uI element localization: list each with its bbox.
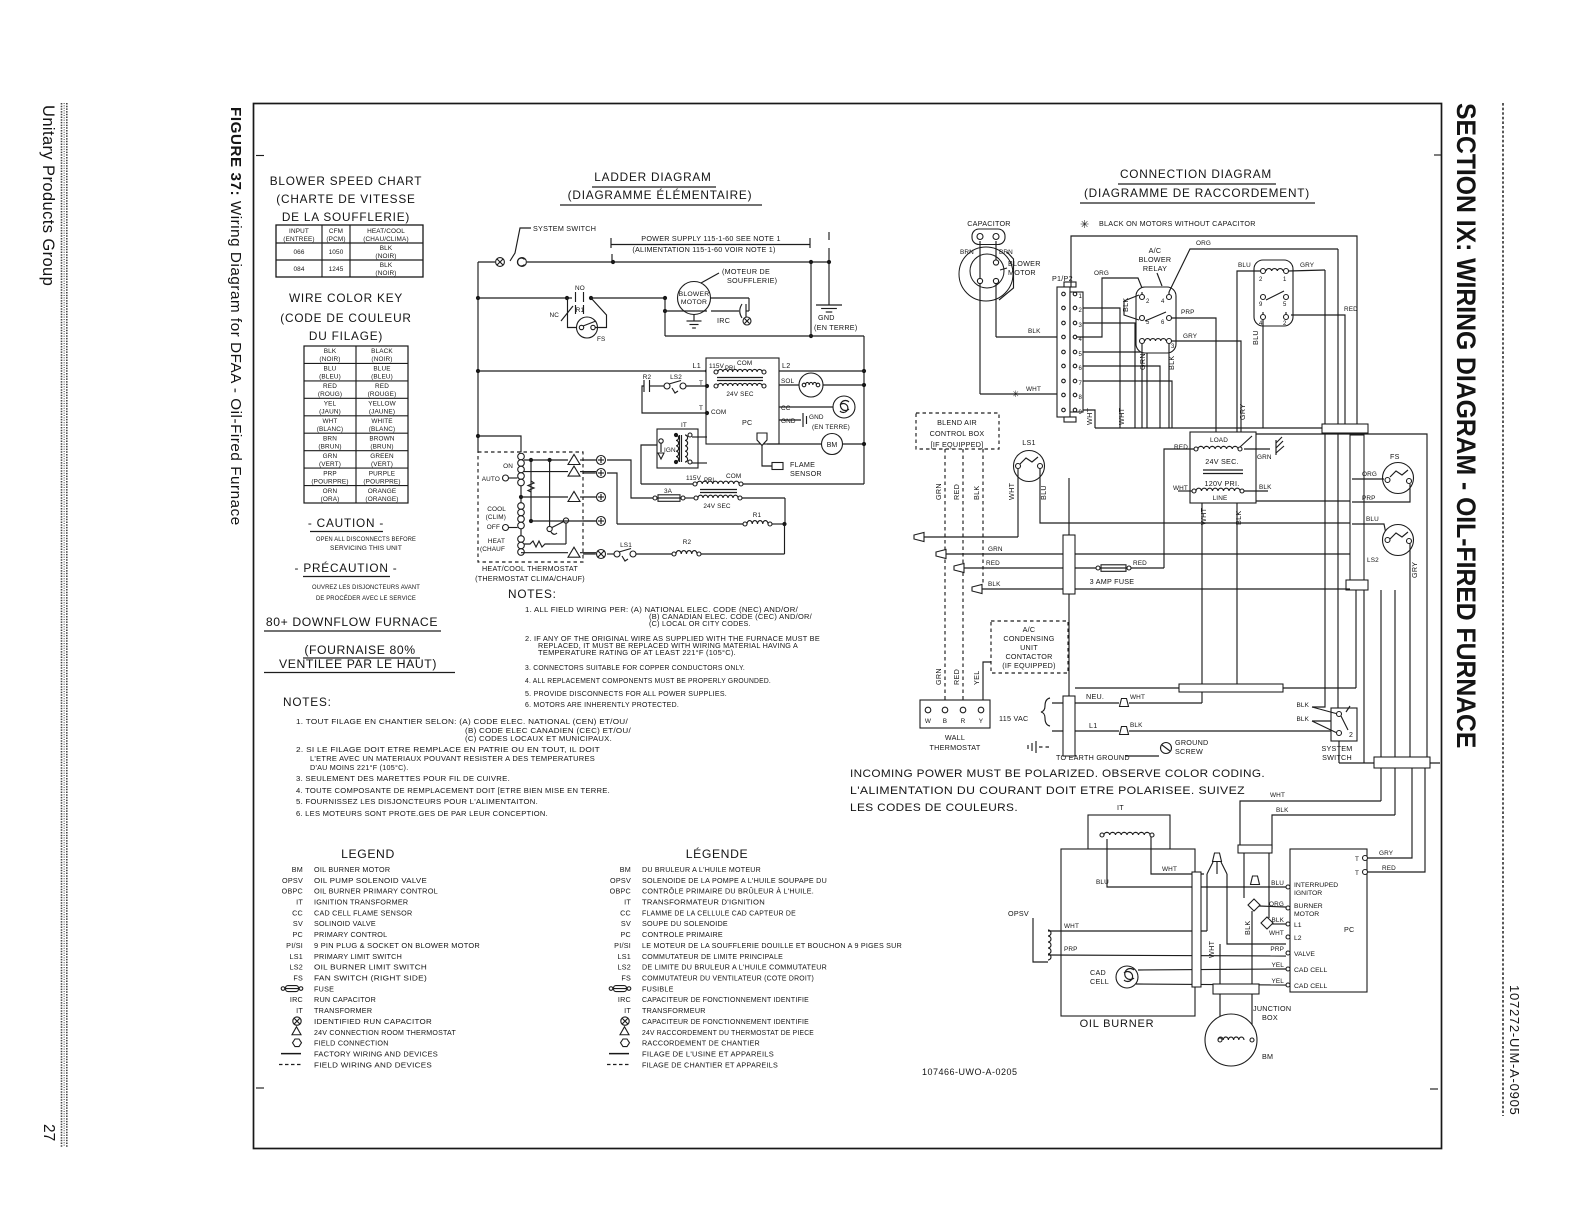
legend symbol fuse [281,987,285,991]
svg-text:FS: FS [597,336,605,343]
svg-text:CAD CELL FLAME SENSOR: CAD CELL FLAME SENSOR [314,908,412,917]
svg-text:CC: CC [620,908,631,917]
svg-text:PRP: PRP [1181,309,1195,316]
svg-text:CC: CC [781,405,791,412]
blower motor (connection) [959,241,1041,301]
capacitor [960,219,1013,256]
WHT/BLK feeds [1240,792,1395,849]
svg-text:120V PRI.: 120V PRI. [1204,479,1239,488]
svg-text:IT: IT [296,1006,303,1015]
svg-text:BLU: BLU [1039,485,1048,500]
svg-text:RED: RED [375,383,389,390]
blower motor (ladder) [663,267,777,336]
svg-text:IRC: IRC [618,995,631,1004]
svg-text:BOX: BOX [1262,1013,1278,1022]
svg-text:OIL BURNER LIMIT SWITCH: OIL BURNER LIMIT SWITCH [314,963,427,972]
svg-text:(NOIR): (NOIR) [371,356,392,363]
doc number [922,1067,1018,1077]
solenoid SOL [779,373,866,397]
svg-text:WHT: WHT [1117,407,1126,425]
svg-text:3 AMP FUSE: 3 AMP FUSE [1090,577,1135,586]
svg-text:GND: GND [818,313,835,322]
svg-text:BLUE: BLUE [373,366,390,373]
svg-text:POWER SUPPLY 115-1-60 SEE NOTE: POWER SUPPLY 115-1-60 SEE NOTE 1 [641,234,780,243]
vertical header Unitary Products Group [39,105,57,286]
incoming power note [850,768,1265,814]
svg-text:CAPACITEUR DE FONCTIONNEMENT I: CAPACITEUR DE FONCTIONNEMENT IDENTIFIE [642,1017,809,1026]
svg-text:(VERT): (VERT) [319,461,341,468]
svg-text:OPEN ALL DISCONNECTS BEFORE: OPEN ALL DISCONNECTS BEFORE [316,536,416,543]
wire color key table [304,346,408,503]
svg-text:(CHARTE DE VITESSE: (CHARTE DE VITESSE [276,192,415,206]
svg-text:SOUPE DU SOLENOIDE: SOUPE DU SOLENOIDE [642,919,728,928]
svg-text:INPUT: INPUT [289,228,309,235]
svg-text:BLK: BLK [1130,722,1143,729]
svg-text:084: 084 [293,266,304,273]
svg-text:L2: L2 [782,361,791,370]
resistor R1 (lower) [607,473,787,554]
svg-text:GRN: GRN [934,483,943,500]
svg-text:ORN: ORN [323,488,338,495]
svg-text:BLU: BLU [1096,879,1109,886]
svg-text:✳: ✳ [1080,219,1089,231]
svg-text:CAD CELL: CAD CELL [1294,967,1327,974]
svg-text:GRN: GRN [988,546,1003,553]
svg-text:COMMUTATEUR DU VENTILATEUR (CO: COMMUTATEUR DU VENTILATEUR (COTE DROIT) [642,974,814,983]
svg-text:R: R [961,718,966,725]
svg-text:(IF EQUIPPED): (IF EQUIPPED) [1002,661,1056,670]
svg-text:- CAUTION -: - CAUTION - [308,516,384,530]
svg-text:WHT: WHT [1269,930,1284,937]
ground GND terminal [779,413,850,431]
svg-text:(BLANC): (BLANC) [369,426,396,433]
svg-text:BLK: BLK [988,581,1001,588]
svg-text:GRY: GRY [1300,262,1315,269]
svg-text:BLOWER: BLOWER [1008,259,1041,268]
right dashed rule [1502,103,1504,1116]
svg-text:FILAGE DE CHANTIER ET APPAREIL: FILAGE DE CHANTIER ET APPAREILS [642,1060,778,1069]
svg-text:(ROUG): (ROUG) [318,391,342,398]
wires P1 right pins down [1083,308,1172,428]
svg-text:COM: COM [726,473,741,480]
svg-text:HEAT/COOL: HEAT/COOL [367,228,405,235]
system switch SW [496,224,597,266]
relay contact NO / R1 [478,285,665,314]
legend symbol identified run capacitor [293,1017,301,1025]
ignition transformer IT [641,422,707,484]
svg-text:LES CODES DE COULEURS.: LES CODES DE COULEURS. [850,802,1018,814]
svg-text:RED: RED [952,669,961,685]
run capacitor IRC [746,310,749,312]
svg-text:FS: FS [1390,452,1400,461]
blend air wires [934,449,983,706]
svg-text:IRC: IRC [290,995,303,1004]
svg-text:ORG: ORG [1196,240,1211,247]
svg-text:✳: ✳ [1012,389,1020,399]
svg-text:GRY: GRY [1379,850,1394,857]
svg-text:OPSV: OPSV [282,876,303,885]
legend symbol field connection [293,1039,302,1047]
svg-text:(BLANC): (BLANC) [317,426,344,433]
wire: left rail [476,262,480,452]
downflow furnace heading [264,615,455,673]
svg-text:TRANSFORMATEUR D'IGNITION: TRANSFORMATEUR D'IGNITION [642,898,765,907]
legend symbol fr 15 [620,1027,629,1035]
wire ORG P1 pin1 to FS [1077,270,1142,337]
svg-text:W: W [925,718,932,725]
svg-text:LOAD: LOAD [1210,437,1228,444]
wire bus top y253 [1071,236,1357,424]
svg-text:CAPACITOR: CAPACITOR [967,219,1011,228]
svg-text:RACCORDEMENT DE CHANTIER: RACCORDEMENT DE CHANTIER [642,1039,760,1048]
connector P1/P2 [1052,274,1083,422]
svg-text:DE LA SOUFFLERIE): DE LA SOUFFLERIE) [282,210,410,224]
svg-text:L1: L1 [693,361,702,370]
svg-text:OUVREZ LES DISJONCTEURS AVANT: OUVREZ LES DISJONCTEURS AVANT [312,584,420,591]
svg-text:FIELD WIRING AND DEVICES: FIELD WIRING AND DEVICES [314,1060,432,1069]
svg-text:CELL: CELL [1090,977,1109,986]
bottom right conduit [1339,757,1440,768]
svg-text:(NOIR): (NOIR) [375,270,396,277]
wire WHT motor to P1 pin8 [980,284,1060,400]
wall thermostat [920,700,990,752]
svg-text:BLK: BLK [1028,328,1041,335]
fan switch FS (connection) [1352,452,1414,502]
svg-text:PRP: PRP [1064,946,1078,953]
legend symbol factory wiring and devices [281,1053,301,1055]
svg-text:HEAT/COOL THERMOSTAT: HEAT/COOL THERMOSTAT [482,564,578,573]
svg-text:RED: RED [1382,865,1396,872]
svg-text:WHT: WHT [1270,792,1285,799]
svg-text:LS1: LS1 [620,542,632,549]
svg-text:BURNER: BURNER [1294,903,1323,910]
svg-text:BM: BM [1262,1052,1273,1061]
legend (english) [341,847,395,861]
svg-text:OIL PUMP SOLENOID VALVE: OIL PUMP SOLENOID VALVE [314,876,427,885]
svg-text:BM: BM [292,865,303,874]
svg-text:GRN: GRN [934,668,943,685]
svg-text:BRN: BRN [323,435,337,442]
svg-text:IT: IT [624,1006,631,1015]
svg-text:LS2: LS2 [670,374,682,381]
svg-text:HEAT: HEAT [488,538,505,545]
T terminals GRY/RED [1355,768,1425,877]
svg-text:PC: PC [742,418,753,427]
svg-text:IGNITION TRANSFORMER: IGNITION TRANSFORMER [314,898,408,907]
svg-text:(CLIM): (CLIM) [486,514,506,521]
flame sensor connector (pentagon) [757,433,822,478]
svg-text:(CHAU/CLIMA): (CHAU/CLIMA) [363,236,408,243]
svg-text:VENTILEE PAR LE HAUT): VENTILEE PAR LE HAUT) [279,657,437,671]
limit switch LS1 and resistor R2 (lower rung) [607,539,785,561]
svg-text:24V SEC: 24V SEC [726,391,754,398]
svg-text:80+ DOWNFLOW FURNACE: 80+ DOWNFLOW FURNACE [266,615,438,629]
legend symbol fr 11 [609,987,613,991]
svg-text:GRN: GRN [1138,353,1147,370]
rotated wht labels [1085,407,1126,425]
svg-text:JUNCTION: JUNCTION [1253,1004,1291,1013]
svg-text:TEMPERATURE RATING OF AT LEAST: TEMPERATURE RATING OF AT LEAST 221°F (10… [538,648,736,657]
svg-text:(VERT): (VERT) [371,461,393,468]
svg-text:IT: IT [296,898,303,907]
svg-text:BLK: BLK [1276,807,1289,814]
limit switch LS1 (connection) [1007,438,1350,537]
svg-text:Unitary Products Group: Unitary Products Group [39,105,57,286]
svg-text:2: 2 [1349,732,1353,739]
svg-text:BLK: BLK [972,486,981,501]
notes (french) [283,695,631,818]
svg-text:LS1: LS1 [289,952,303,961]
svg-text:FIELD CONNECTION: FIELD CONNECTION [314,1039,389,1048]
svg-text:MOTOR: MOTOR [681,299,707,306]
thermostat terminal circles [583,456,606,465]
relay wires [1124,240,1350,501]
svg-text:NO: NO [575,285,585,292]
svg-text:ORG: ORG [1362,471,1377,478]
svg-text:BLOWER SPEED CHART: BLOWER SPEED CHART [270,174,423,188]
svg-text:RELAY: RELAY [1143,264,1167,273]
svg-text:BM: BM [827,442,838,449]
svg-text:BLK: BLK [380,262,393,269]
svg-text:BLK: BLK [1167,356,1176,371]
svg-text:LE MOTEUR DE LA SOUFFLERIE DOU: LE MOTEUR DE LA SOUFFLERIE DOUILLE ET BO… [642,941,902,950]
svg-text:(BRUN): (BRUN) [318,443,341,450]
svg-text:COM: COM [737,360,752,367]
svg-text:OIL BURNER PRIMARY CONTROL: OIL BURNER PRIMARY CONTROL [314,887,438,896]
svg-text:T: T [1355,870,1359,877]
relay contact NC [549,298,578,328]
svg-text:5. PROVIDE DISCONNECTS FOR ALL: 5. PROVIDE DISCONNECTS FOR ALL POWER SUP… [525,689,727,698]
svg-text:BLU: BLU [1251,330,1260,345]
svg-text:SOUFFLERIE): SOUFFLERIE) [727,276,777,285]
svg-text:IGNITOR: IGNITOR [1294,890,1322,897]
svg-text:(MOTEUR DE: (MOTEUR DE [722,267,770,276]
svg-text:CFM: CFM [329,228,343,235]
svg-text:UNIT: UNIT [1020,643,1038,652]
svg-text:CONTROL BOX: CONTROL BOX [930,429,985,438]
svg-text:BLK: BLK [1296,702,1309,709]
wire BLK motor to P1 pin4 [996,284,1060,338]
oil pump solenoid valve OPSV [1008,909,1286,962]
svg-text:GRY: GRY [1238,404,1247,420]
vertical caption FIGURE 37 [227,107,244,526]
svg-text:1245: 1245 [329,266,344,273]
svg-text:L1: L1 [1294,922,1302,929]
svg-text:OIL BURNER: OIL BURNER [1080,1018,1155,1030]
svg-text:115V: 115V [709,363,725,370]
svg-text:ON: ON [503,463,513,470]
svg-text:FS: FS [621,974,631,983]
svg-text:WHT: WHT [1064,923,1079,930]
svg-text:IGN: IGN [664,447,676,454]
power supply note bracket [611,234,810,262]
svg-text:(CODE DE COULEUR: (CODE DE COULEUR [280,311,411,325]
wire: top rung [478,260,829,264]
svg-text:GRN: GRN [1257,454,1272,461]
svg-text:RUN CAPACITOR: RUN CAPACITOR [314,995,376,1004]
svg-text:107466-UWO-A-0205: 107466-UWO-A-0205 [922,1067,1018,1077]
svg-text:COM: COM [711,409,726,416]
svg-text:2. SI LE FILAGE DOIT ETRE REMP: 2. SI LE FILAGE DOIT ETRE REMPLACE EN PA… [296,745,600,754]
svg-text:SERVICING THIS UNIT: SERVICING THIS UNIT [330,545,402,552]
svg-text:WALL: WALL [945,733,965,742]
svg-text:9 PIN PLUG & SOCKET ON BLOWER: 9 PIN PLUG & SOCKET ON BLOWER MOTOR [314,941,480,950]
svg-text:3A: 3A [664,488,673,495]
svg-text:R1: R1 [753,512,762,519]
svg-text:(NOIR): (NOIR) [375,253,396,260]
svg-text:IDENTIFIED RUN CAPACITOR: IDENTIFIED RUN CAPACITOR [314,1017,432,1026]
svg-text:IT: IT [681,422,687,429]
svg-text:CC: CC [292,908,303,917]
conduit bar at 115vac [1063,696,1075,756]
svg-text:TRANSFORMEUR: TRANSFORMEUR [642,1006,706,1015]
legend symbol field wiring and devices [279,1064,301,1066]
svg-text:IRC: IRC [717,316,730,325]
svg-text:27: 27 [40,1124,57,1141]
svg-text:ORANGE: ORANGE [368,488,397,495]
svg-text:1050: 1050 [329,249,344,256]
burner conduit [1192,845,1272,987]
svg-text:24V SEC.: 24V SEC. [1205,457,1239,466]
svg-text:T: T [1355,856,1359,863]
svg-text:(ENTREE): (ENTREE) [283,236,314,243]
wire bus y688 [1075,684,1356,692]
svg-text:RED: RED [952,484,961,500]
svg-text:R1: R1 [576,307,585,314]
svg-text:A/C: A/C [1149,246,1162,255]
svg-text:SENSOR: SENSOR [790,469,822,478]
svg-text:DU BRULEUR A L'HUILE MOTEUR: DU BRULEUR A L'HUILE MOTEUR [642,865,761,874]
svg-text:ORG: ORG [1094,270,1109,277]
svg-text:CONTACTOR: CONTACTOR [1005,652,1052,661]
svg-text:FILAGE DE L'USINE ET APPAREILS: FILAGE DE L'USINE ET APPAREILS [642,1050,774,1059]
wire bus y434 [1237,434,1427,757]
svg-text:24V RACCORDEMENT DU THERMOSTAT: 24V RACCORDEMENT DU THERMOSTAT DE PIECE [642,1028,814,1037]
svg-text:(BLEU): (BLEU) [319,374,341,381]
limit switch LS2 (connection) [1352,516,1419,757]
wire: L2 drop [809,262,813,338]
ground GND (EN TERRE) ladder [814,232,858,332]
svg-text:WHITE: WHITE [371,418,392,425]
svg-text:(CHAUF: (CHAUF [480,546,505,553]
svg-text:PI/SI: PI/SI [614,941,631,950]
system switch (connection) [1296,702,1357,763]
svg-text:NOTES:: NOTES: [508,587,557,601]
svg-text:RED: RED [1344,306,1358,313]
svg-text:L1: L1 [1089,721,1098,730]
svg-text:OFF: OFF [487,524,500,531]
svg-text:WHT: WHT [1199,507,1208,525]
page number 27 [40,1124,57,1141]
svg-text:NEU.: NEU. [1086,692,1104,701]
conduit bar right [1322,424,1368,590]
transformer 24V (connection) [1164,432,1284,703]
svg-text:WHT: WHT [322,418,337,425]
svg-text:TRANSFORMER: TRANSFORMER [314,1006,372,1015]
svg-text:WHT: WHT [1026,386,1041,393]
drawing frame [254,104,1442,1149]
svg-text:LINE: LINE [1213,495,1228,502]
svg-text:GND: GND [781,418,796,425]
legend symbol fr 14 [621,1017,629,1025]
svg-text:GREEN: GREEN [370,453,394,460]
svg-text:DU FILAGE): DU FILAGE) [309,329,383,343]
svg-text:WHT: WHT [1085,407,1094,425]
note: black on motors [1080,219,1256,231]
blower speed chart heading [270,174,423,224]
svg-text:BLK: BLK [380,245,393,252]
svg-text:AUTO: AUTO [482,476,500,483]
svg-text:PI/SI: PI/SI [286,941,303,950]
svg-text:066: 066 [293,249,304,256]
svg-text:BROWN: BROWN [369,435,394,442]
wire: motor return to right rail [665,336,866,484]
svg-text:PRP: PRP [1362,495,1376,502]
legend symbol 24v connection room thermostat [292,1027,301,1035]
svg-text:BLK: BLK [1296,716,1309,723]
svg-text:GRN: GRN [323,453,338,460]
svg-text:(NOIR): (NOIR) [319,356,340,363]
svg-text:24V SEC: 24V SEC [703,503,731,510]
svg-text:GROUND: GROUND [1175,738,1208,747]
svg-text:L'ETRE AVEC UN MATERIAUX POUVA: L'ETRE AVEC UN MATERIAUX POUVANT RESISTE… [310,754,595,763]
svg-text:(ALIMENTATION 115-1-60 VOIR NO: (ALIMENTATION 115-1-60 VOIR NOTE 1) [632,245,775,254]
svg-text:RED: RED [1174,444,1188,451]
ignition transformer IT (connection) [1088,803,1170,849]
svg-text:107272-UIM-A-0905: 107272-UIM-A-0905 [1507,985,1522,1116]
ladder diagram title [560,170,762,205]
svg-text:CONNECTION DIAGRAM: CONNECTION DIAGRAM [1120,167,1272,181]
A/C condensing unit contactor [983,621,1068,706]
svg-text:BLU: BLU [1366,516,1379,523]
svg-text:1. TOUT FILAGE EN CHANTIER SEL: 1. TOUT FILAGE EN CHANTIER SELON: (A) CO… [296,717,628,726]
legend symbol fr 16 [621,1039,630,1047]
svg-text:FLAME: FLAME [790,460,815,469]
svg-text:MOTOR: MOTOR [1294,911,1319,918]
svg-text:(ROUGE): (ROUGE) [368,391,397,398]
svg-text:SV: SV [621,919,631,928]
junction box / burner motor BM [1205,944,1291,1066]
svg-text:LÉGENDE: LÉGENDE [686,846,748,861]
svg-text:(EN TERRE): (EN TERRE) [814,323,858,332]
transformer 115V PRI / 24V SEC (lower) [607,460,864,524]
svg-text:RED: RED [1133,560,1147,567]
svg-text:3. SEULEMENT DES MARETTES POUR: 3. SEULEMENT DES MARETTES POUR FIL DE CU… [296,774,510,783]
svg-text:SOL: SOL [781,378,795,385]
svg-text:(PCM): (PCM) [326,236,345,243]
svg-text:BLOWER: BLOWER [1139,255,1172,264]
svg-text:IT: IT [624,898,631,907]
svg-text:SV: SV [293,919,303,928]
svg-text:RED: RED [323,383,337,390]
svg-text:OIL BURNER MOTOR: OIL BURNER MOTOR [314,865,390,874]
svg-text:(ORA): (ORA) [321,496,340,503]
svg-text:GND: GND [809,414,824,421]
svg-text:FUSIBLE: FUSIBLE [642,984,674,993]
fan switch FS [577,298,607,343]
svg-text:4. TOUTE COMPOSANTE DE REMPLAC: 4. TOUTE COMPOSANTE DE REMPLACEMENT DOIT… [296,786,610,795]
svg-text:(BRUN): (BRUN) [370,443,393,450]
svg-text:MOTOR: MOTOR [1008,268,1036,277]
svg-text:D'AU MOINS 221°F (105°C).: D'AU MOINS 221°F (105°C). [310,763,408,772]
svg-text:SYSTEM SWITCH: SYSTEM SWITCH [533,224,596,233]
heat/cool thermostat dashed box [475,452,596,583]
svg-text:YEL: YEL [324,401,337,408]
svg-text:(FOURNAISE 80%: (FOURNAISE 80% [304,643,415,657]
legend symbol fr 17 [609,1053,629,1055]
svg-text:115 VAC: 115 VAC [999,714,1028,723]
svg-text:CONTRÔLE PRIMAIRE DU BRÛLEUR À: CONTRÔLE PRIMAIRE DU BRÛLEUR À L'HUILE. [642,887,814,896]
